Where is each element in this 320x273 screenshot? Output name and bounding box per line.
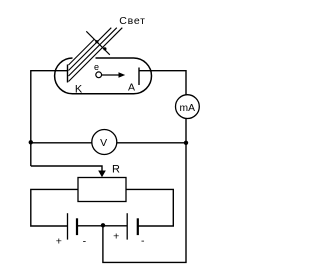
voltmeter V	[92, 130, 117, 155]
wire wiper feed	[31, 166, 102, 172]
wire left vertical	[30, 71, 32, 167]
node battery mid tap	[101, 223, 105, 227]
wiper arrow head	[98, 171, 106, 178]
svg-text:-: -	[83, 236, 87, 248]
battery GB2 minus plate	[137, 218, 139, 235]
node left junction	[29, 140, 33, 144]
wire between batteries	[77, 225, 127, 227]
electron circle	[96, 72, 102, 78]
wire voltmeter horizontal	[31, 142, 186, 144]
light ray 3	[69, 28, 117, 76]
wavefront line crossing rays	[86, 31, 110, 55]
tube envelope	[55, 58, 152, 94]
wire rheostat left lead	[31, 189, 78, 226]
wire rheostat right lead	[126, 189, 173, 226]
wire cathode lead	[30, 70, 67, 72]
wire anode lead and right side down to mid-tap	[103, 71, 186, 263]
light ray 1	[69, 40, 95, 66]
battery GB2 plus plate	[126, 213, 128, 239]
svg-text:V: V	[100, 137, 107, 149]
svg-text:+: +	[56, 235, 62, 247]
svg-text:A: A	[128, 82, 135, 94]
battery GB1 plus plate	[67, 213, 69, 239]
svg-text:K: K	[75, 83, 83, 95]
battery GB1 minus plate	[76, 218, 78, 235]
svg-text:+: +	[113, 231, 119, 243]
svg-text:mA: mA	[180, 103, 196, 114]
svg-text:e: e	[94, 62, 99, 72]
milliammeter mA	[176, 95, 200, 119]
svg-text:-: -	[141, 235, 145, 247]
rheostat R box	[78, 178, 126, 202]
svg-text:Свет: Свет	[119, 15, 145, 27]
node right junction	[184, 141, 188, 145]
electron velocity arrow	[102, 74, 120, 76]
svg-text:R: R	[112, 164, 120, 176]
anode A plate	[138, 68, 140, 86]
cathode K plate	[67, 65, 69, 83]
light ray 2	[69, 28, 112, 71]
node dot on wavefront lower	[103, 47, 106, 50]
light ray 4	[69, 28, 123, 82]
node dot on wavefront upper	[95, 40, 98, 43]
